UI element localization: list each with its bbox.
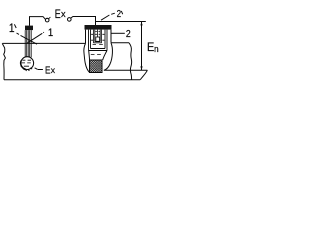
wire from right terminal to electrode 2 — [71, 17, 96, 26]
svg-text:2: 2 — [126, 29, 131, 41]
break edge left — [2, 43, 5, 79]
ball shading dashes — [22, 60, 31, 66]
terminal circle right — [68, 18, 72, 22]
wire from electrode 1 up and right — [30, 17, 46, 26]
liquid level dashes — [91, 32, 104, 45]
svg-text:E: E — [45, 65, 50, 76]
ball end of electrode 1 — [21, 57, 34, 70]
ball rim ticks — [21, 66, 32, 71]
pit mouth walls — [86, 30, 112, 44]
ground surface left — [3, 42, 86, 44]
electrode 1 cap — [25, 26, 33, 31]
svg-text:1: 1 — [48, 27, 53, 39]
svg-text:x: x — [51, 65, 56, 75]
leader for 2 — [112, 32, 125, 34]
dimension line En — [141, 22, 143, 71]
outer vessel walls (porous pot) — [89, 30, 108, 51]
inner vessel — [93, 30, 101, 43]
svg-text:n: n — [154, 43, 159, 54]
neck taper — [89, 51, 107, 61]
ground surface right of pit — [111, 42, 129, 44]
leader for 1 — [43, 32, 44, 33]
copper rod and tip box — [97, 30, 99, 37]
leader for 2' — [101, 13, 115, 20]
break edge lower right — [140, 70, 147, 80]
svg-text:1: 1 — [9, 22, 15, 35]
break edge upper right — [129, 43, 132, 80]
bottom border — [4, 79, 140, 81]
electrode 2 cap — [85, 25, 112, 30]
porous plug — [90, 60, 103, 73]
vessel bottoms — [89, 49, 108, 51]
step line (deep ground) — [104, 69, 148, 71]
label Ex (bottom) with leader — [35, 68, 43, 70]
svg-text:2: 2 — [117, 8, 121, 19]
svg-text:E: E — [55, 9, 61, 21]
pit wall left — [84, 43, 90, 72]
extension line to En dimension — [96, 21, 146, 23]
neck dashes — [91, 53, 101, 55]
terminal circle left — [45, 18, 49, 22]
pit wall right — [104, 43, 112, 71]
ball rim shading arc — [21, 61, 26, 70]
electrode 1 rod hatch — [25, 30, 31, 57]
leader for 1' — [17, 33, 38, 44]
svg-text:x: x — [61, 9, 66, 19]
